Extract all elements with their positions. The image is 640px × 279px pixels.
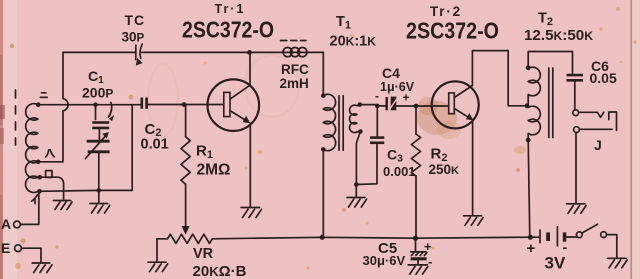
node T1 primary top <box>321 93 326 98</box>
wire: coil top to C1/C2 junction (tuned node) <box>38 104 132 106</box>
label ha <box>46 150 55 157</box>
T2 core <box>549 68 553 138</box>
T1 core <box>339 96 343 151</box>
resistor R2 250k <box>411 106 420 238</box>
svg-text:TC: TC <box>125 12 146 28</box>
node T2 top <box>526 65 531 70</box>
svg-text:30P: 30P <box>122 30 145 45</box>
potentiometer VR 20k B <box>157 234 213 261</box>
node C5 / rail <box>413 236 418 241</box>
wire: varcap junction down to ground <box>98 190 100 203</box>
jack J plug <box>609 112 617 130</box>
wire: Tr1 emitter to ground <box>249 123 251 206</box>
wire: jack sleeve to ground <box>575 133 577 203</box>
label ni <box>40 93 47 98</box>
svg-text:0.01: 0.01 <box>141 137 169 153</box>
svg-text:0.05: 0.05 <box>590 70 617 86</box>
node R2 top <box>414 104 419 109</box>
ground (T1 secondary) <box>347 198 367 208</box>
svg-text:0.001: 0.001 <box>383 164 416 179</box>
svg-text:30μ·6V: 30μ·6V <box>363 253 406 268</box>
wire: Tr2 emitter to ground <box>472 120 474 214</box>
svg-text:E: E <box>1 240 10 256</box>
battery 3V <box>533 227 577 246</box>
ground (Tr1 emitter) <box>241 208 262 218</box>
svg-text:20K:1K: 20K:1K <box>330 34 377 50</box>
ground (Tr2 emitter) <box>464 216 484 226</box>
jack J tip spring <box>579 112 604 117</box>
ferrite core (dashed) of antenna coil L <box>15 90 17 145</box>
capacitor C1 200p trimmer <box>92 103 114 130</box>
transistor Q2 Tr.2 2SC372-O <box>432 81 479 128</box>
svg-text:RFC: RFC <box>281 62 309 77</box>
label ro <box>46 171 52 178</box>
label i <box>32 195 38 204</box>
node tap ha <box>36 160 41 165</box>
capacitor C5 30u 6V electrolytic <box>411 238 427 264</box>
capacitor TC 30p (regeneration trimmer) <box>136 44 143 66</box>
wire: T1 secondary top to C4 <box>360 104 378 106</box>
ground (ro tap) <box>54 201 73 210</box>
node tap ro <box>38 175 43 180</box>
node C1 junction <box>93 102 98 107</box>
wire: Tr1 collector to rail <box>249 52 251 85</box>
jack J sleeve line <box>579 128 612 130</box>
ground (C5) <box>408 265 428 274</box>
wire: T1 primary bottom to supply rail <box>322 149 324 237</box>
terminal A <box>14 191 39 228</box>
transformer T1 secondary <box>350 105 361 133</box>
svg-text:2mH: 2mH <box>280 76 309 91</box>
capacitor C6 0.05 <box>567 74 584 110</box>
top rail: TC to RFC <box>142 51 323 53</box>
svg-text:+: + <box>424 239 432 254</box>
svg-text:J: J <box>594 137 602 153</box>
switch S <box>576 224 616 257</box>
svg-text:-: - <box>428 254 432 269</box>
supply rail: VR to battery <box>212 237 530 239</box>
svg-text:250K: 250K <box>429 162 460 177</box>
ground (switch) <box>608 258 628 268</box>
ground (VR) <box>148 262 168 272</box>
wire: to base Tr2 <box>416 105 449 107</box>
jack J sleeve contact <box>574 127 580 133</box>
node T1 secondary bottom / C3 <box>354 182 359 187</box>
node T1 secondary top <box>358 102 363 107</box>
svg-text:+: + <box>527 240 536 257</box>
wire: T2 top to C6 <box>528 52 572 74</box>
svg-text:Tr·1: Tr·1 <box>215 2 246 16</box>
node varcap bottom junction <box>97 188 102 193</box>
wire: to base of Tr1 <box>184 104 224 106</box>
node T1 primary bottom / rail <box>320 235 325 240</box>
capacitor C3 0.001 <box>356 106 384 185</box>
top rail: tuned node to TC <box>63 51 135 53</box>
wire: tap i rail to C2 corner <box>40 105 133 192</box>
variable capacitor (tuning) <box>85 132 109 190</box>
capacitor C4 1u 6V electrolytic <box>377 97 416 111</box>
svg-text:A: A <box>1 216 11 232</box>
node T2 bottom <box>526 138 531 143</box>
svg-text:12.5K:50K: 12.5K:50K <box>524 27 593 44</box>
node collector Tr1 / rail <box>247 50 252 55</box>
wire: T2 bottom to supply rail <box>528 140 530 237</box>
node tap i (coil bottom) <box>37 189 42 194</box>
svg-text:C4: C4 <box>382 65 400 81</box>
wire: TC vertical with hop over tuned node wire, down to tap ha <box>38 52 68 161</box>
node C3 junction <box>375 104 380 109</box>
capacitor C2 0.01 <box>132 98 184 109</box>
terminal E <box>15 245 41 262</box>
svg-text:+: + <box>403 91 410 105</box>
node T2 tap <box>525 103 530 108</box>
choke RFC 2mH core dashes <box>281 40 307 42</box>
svg-text:VR: VR <box>193 246 214 262</box>
svg-text:3V: 3V <box>545 254 566 273</box>
ground (tuning cap) <box>90 204 110 214</box>
svg-text:2MΩ: 2MΩ <box>197 162 231 179</box>
node battery / rail / T2 <box>528 235 533 240</box>
jack J tip contact <box>573 110 579 116</box>
ground (jack) <box>567 204 587 214</box>
resistor R1 2M <box>181 105 190 226</box>
wire: junction to ground <box>355 185 357 197</box>
ground (terminal E) <box>32 263 52 273</box>
transistor Q1 Tr.1 2SC372-O <box>208 79 260 131</box>
wire: tap ro to ground <box>40 177 64 200</box>
wire: Tr2 collector route to T2 tap <box>472 51 526 106</box>
antenna coil L winding <box>25 104 37 193</box>
node tap ni (coil top) <box>36 102 41 107</box>
svg-text:2SC372-O: 2SC372-O <box>182 17 274 43</box>
wiper arrow of VR <box>182 226 190 235</box>
node base Tr1 / R1 <box>182 102 187 107</box>
wire: T1 secondary bottom down <box>356 132 360 185</box>
transformer T1 primary <box>323 94 335 150</box>
svg-text:20KΩ·B: 20KΩ·B <box>193 263 247 279</box>
node T1 primary bottom <box>321 147 326 152</box>
choke RFC 2mH <box>283 48 307 57</box>
node T1 secondary bottom <box>358 129 363 134</box>
wire: C1 to variable capacitor <box>98 129 100 139</box>
top rail: RFC to T1 <box>322 52 324 95</box>
transformer T2 winding <box>528 67 540 140</box>
svg-text:2SC372-O: 2SC372-O <box>406 18 499 44</box>
svg-text:200P: 200P <box>82 85 113 101</box>
svg-text:-: - <box>375 89 379 103</box>
